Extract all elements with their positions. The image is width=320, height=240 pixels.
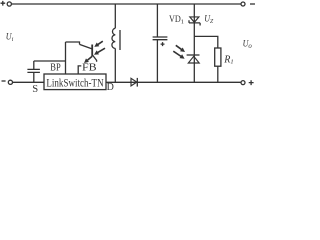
svg-text:S: S bbox=[32, 84, 38, 93]
svg-text:LinkSwitch-TN: LinkSwitch-TN bbox=[46, 76, 103, 90]
svg-text:BP: BP bbox=[50, 63, 60, 74]
svg-text:FB: FB bbox=[82, 63, 97, 74]
svg-text:D: D bbox=[107, 82, 114, 93]
